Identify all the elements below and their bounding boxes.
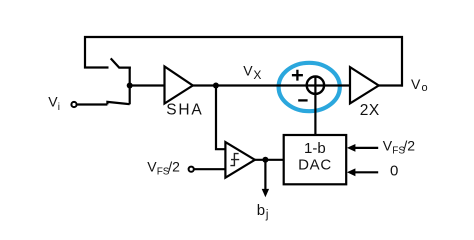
summing-node highlight ellipse (cyan): [279, 63, 340, 111]
wire: comparator output to DAC: [255, 159, 284, 161]
svg-text:V: V: [48, 94, 58, 110]
svg-text:SHA: SHA: [166, 101, 203, 118]
switch S1 (open) top sampling switch blade: [111, 58, 131, 67]
svg-text:0: 0: [390, 163, 398, 180]
wire: 2X output to Vo riser: [379, 84, 403, 86]
arrow: 0 into DAC (lower right): [355, 171, 378, 173]
svg-text:V: V: [383, 137, 393, 153]
comparator U1: [225, 142, 255, 178]
input terminal VFS/2 (comparator reference): [189, 167, 194, 172]
svg-text:1-b: 1-b: [304, 140, 326, 157]
wire: vertical from switch S1 down past node to S2: [129, 67, 131, 105]
label - (summing input sign): [298, 99, 307, 101]
node VX junction dot: [213, 83, 219, 89]
label + (summing input sign): [292, 70, 303, 81]
wire: summing circle down into DAC top: [314, 77, 316, 135]
switch S2 (closed) bottom sampling switch: [107, 102, 129, 105]
wire: node A to SHA input: [130, 84, 166, 86]
svg-text:/2: /2: [403, 137, 415, 153]
block 1-b DAC: [284, 135, 347, 184]
svg-text:b: b: [257, 202, 265, 219]
input terminal Vi: [71, 102, 76, 107]
svg-text:X: X: [253, 68, 261, 82]
svg-text:j: j: [265, 209, 269, 221]
amplifier 2X: [350, 67, 379, 103]
main wire: SHA output through summing circle to 2X input: [190, 84, 351, 86]
svg-text:2X: 2X: [360, 102, 380, 119]
arrow: comparator decision bit down: [264, 160, 266, 190]
svg-text:/2: /2: [168, 158, 180, 174]
wire: Vi to switch S2: [77, 103, 107, 105]
arrow: VFS/2 into DAC (upper right): [355, 147, 378, 149]
comparator hysteresis symbol: [230, 154, 239, 166]
svg-text:DAC: DAC: [298, 156, 332, 173]
junction node A (switch output): [127, 83, 133, 89]
wire: top feedback run from Vo riser back to left: [85, 37, 402, 87]
svg-text:V: V: [411, 76, 421, 92]
wire: node VX down to comparator upper input: [216, 86, 225, 150]
svg-text:V: V: [243, 63, 253, 79]
amplifier SHA: [165, 67, 193, 104]
wire: VFS/2 to comparator lower input: [195, 168, 226, 170]
junction node comparator output: [262, 157, 268, 163]
summing circle with plus crosshair: [307, 77, 324, 94]
svg-text:o: o: [422, 82, 428, 94]
svg-text:i: i: [58, 102, 60, 113]
